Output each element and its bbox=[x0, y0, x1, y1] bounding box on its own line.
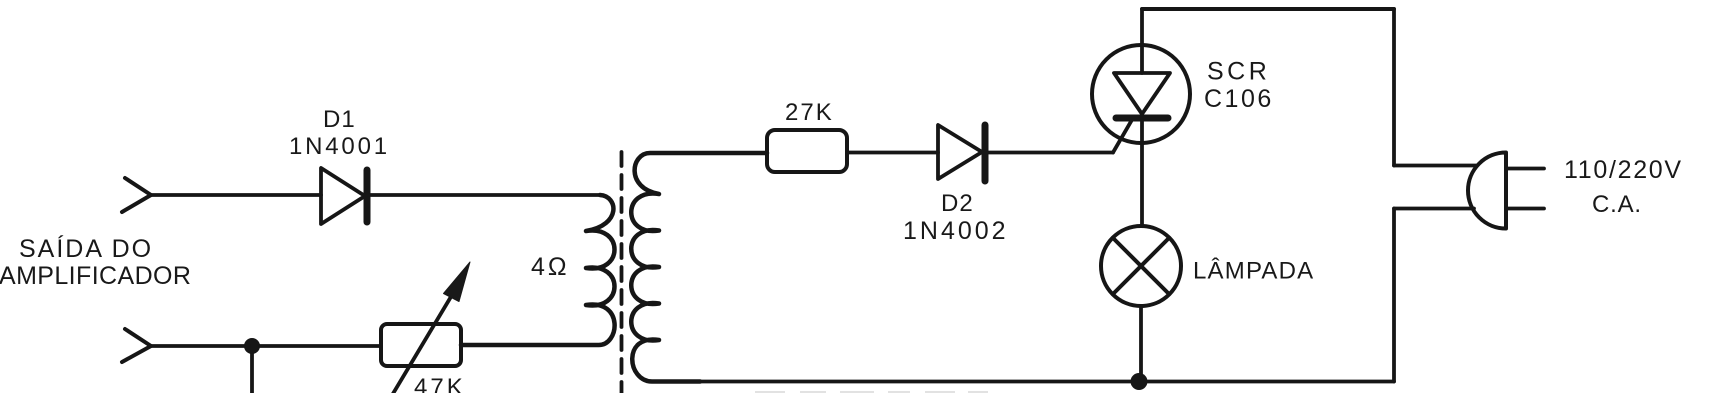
diode D1 bbox=[321, 168, 365, 224]
wire top input to D1 bbox=[151, 193, 321, 197]
SCR gate lead bbox=[1113, 118, 1133, 153]
wire junction down (cropped) bbox=[250, 346, 254, 393]
cathode bar of D2 bbox=[982, 125, 989, 181]
potentiometer 47K arrowhead bbox=[444, 262, 471, 302]
cathode bar of D1 bbox=[364, 170, 371, 222]
plug prong upper bbox=[1506, 167, 1544, 171]
svg-text:D2: D2 bbox=[941, 190, 974, 217]
svg-text:27K: 27K bbox=[785, 99, 834, 126]
svg-text:C106: C106 bbox=[1204, 85, 1274, 113]
SCR body circle bbox=[1092, 45, 1190, 143]
SCR cathode bar bbox=[1116, 115, 1168, 122]
potentiometer 47K body bbox=[381, 324, 461, 366]
svg-text:SAÍDA DO: SAÍDA DO bbox=[19, 234, 153, 263]
wire to plug lower bbox=[1394, 207, 1474, 211]
svg-text:LÂMPADA: LÂMPADA bbox=[1193, 258, 1314, 285]
svg-text:1N4001: 1N4001 bbox=[289, 133, 390, 160]
wire D1 to transformer primary bbox=[371, 193, 600, 197]
svg-text:47K: 47K bbox=[414, 374, 466, 393]
wire SCR cathode to lamp bbox=[1140, 121, 1144, 226]
svg-text:D1: D1 bbox=[323, 106, 356, 133]
SCR triangle bbox=[1114, 73, 1170, 114]
input terminal arrow bottom bbox=[122, 329, 151, 362]
transformer core dashed line bbox=[620, 152, 624, 393]
wire 27K to D2 bbox=[847, 151, 938, 155]
svg-text:4Ω: 4Ω bbox=[531, 253, 570, 281]
wire to plug upper bbox=[1394, 164, 1477, 168]
right vertical lower bbox=[1392, 209, 1396, 382]
potentiometer 47K arrow shaft bbox=[391, 295, 452, 393]
node A junction dot bbox=[244, 338, 260, 354]
SCR anode wire from top rail bbox=[1140, 9, 1144, 73]
wire potentiometer to transformer primary bbox=[461, 343, 600, 347]
svg-text:1N4002: 1N4002 bbox=[903, 217, 1009, 245]
plug body half circle bbox=[1468, 153, 1506, 229]
wire lamp to bottom rail bbox=[1139, 306, 1143, 382]
diode D2 bbox=[938, 125, 982, 179]
lamp X mark bbox=[1113, 238, 1169, 294]
plug prong lower bbox=[1506, 207, 1544, 211]
right vertical upper bbox=[1392, 9, 1396, 166]
svg-text:110/220V: 110/220V bbox=[1564, 156, 1683, 184]
lamp body circle bbox=[1101, 226, 1181, 306]
resistor 27K body bbox=[767, 130, 847, 172]
node B junction dot bottom bbox=[1131, 373, 1148, 390]
wire D2 to SCR gate bbox=[988, 151, 1113, 155]
svg-text:SCR: SCR bbox=[1207, 58, 1270, 86]
input terminal arrow top bbox=[122, 178, 151, 212]
transformer primary coil bbox=[461, 195, 615, 345]
transformer secondary coil bbox=[631, 153, 767, 382]
svg-text:C.A.: C.A. bbox=[1592, 191, 1642, 218]
wire junction to potentiometer bbox=[252, 344, 381, 348]
bottom rail bbox=[650, 380, 1394, 384]
wire bottom input to junction bbox=[151, 344, 252, 348]
cropped caption remnants bbox=[755, 391, 988, 393]
top rail bbox=[1142, 7, 1394, 11]
svg-text:AMPLIFICADOR: AMPLIFICADOR bbox=[0, 262, 191, 290]
